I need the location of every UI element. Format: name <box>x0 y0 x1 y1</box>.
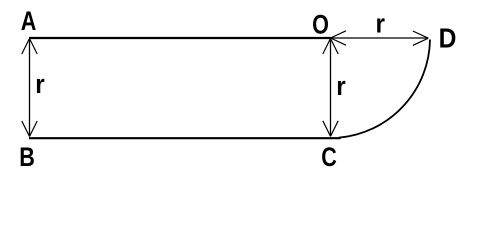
svg-text:r: r <box>35 70 44 99</box>
arrowhead at O (vertical) <box>323 39 338 55</box>
svg-text:D: D <box>439 22 457 54</box>
dimension arrow OD shaft <box>331 37 429 39</box>
arc CD (quarter circle radius r) <box>339 40 430 138</box>
arrowhead at B <box>22 121 37 137</box>
svg-text:O: O <box>312 10 329 40</box>
svg-text:A: A <box>21 7 37 37</box>
arrowhead at D <box>413 31 429 45</box>
arrowhead at A <box>22 39 37 55</box>
svg-text:r: r <box>375 9 384 38</box>
svg-text:C: C <box>321 143 337 173</box>
dimension arrow AB shaft <box>29 39 31 137</box>
line AO (top edge) <box>29 37 331 39</box>
dimension arrow OC shaft <box>330 39 332 137</box>
svg-text:B: B <box>19 143 35 173</box>
arrowhead at O (horizontal) <box>331 31 347 45</box>
arrowhead at C <box>323 121 338 137</box>
line BC (bottom edge) <box>29 137 341 139</box>
svg-text:r: r <box>336 72 345 101</box>
